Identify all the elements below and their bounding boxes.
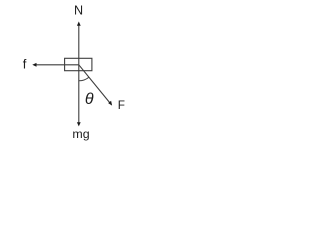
arrowhead mg xyxy=(77,122,81,126)
svg-text:N: N xyxy=(74,3,83,17)
arrowhead F xyxy=(108,101,112,106)
svg-text:F: F xyxy=(118,98,125,112)
force mg arrow (down) xyxy=(78,65,80,123)
arrowhead f xyxy=(32,63,36,67)
arrowhead N xyxy=(77,22,81,26)
force f arrow (left) xyxy=(36,64,79,66)
svg-text:θ: θ xyxy=(85,91,94,108)
svg-text:mg: mg xyxy=(72,127,89,141)
force F arrow (down-right at angle theta) xyxy=(79,65,110,103)
force N arrow (up) xyxy=(78,25,80,65)
svg-text:f: f xyxy=(23,56,27,71)
angle arc xyxy=(79,77,89,81)
block rectangle xyxy=(65,58,92,70)
